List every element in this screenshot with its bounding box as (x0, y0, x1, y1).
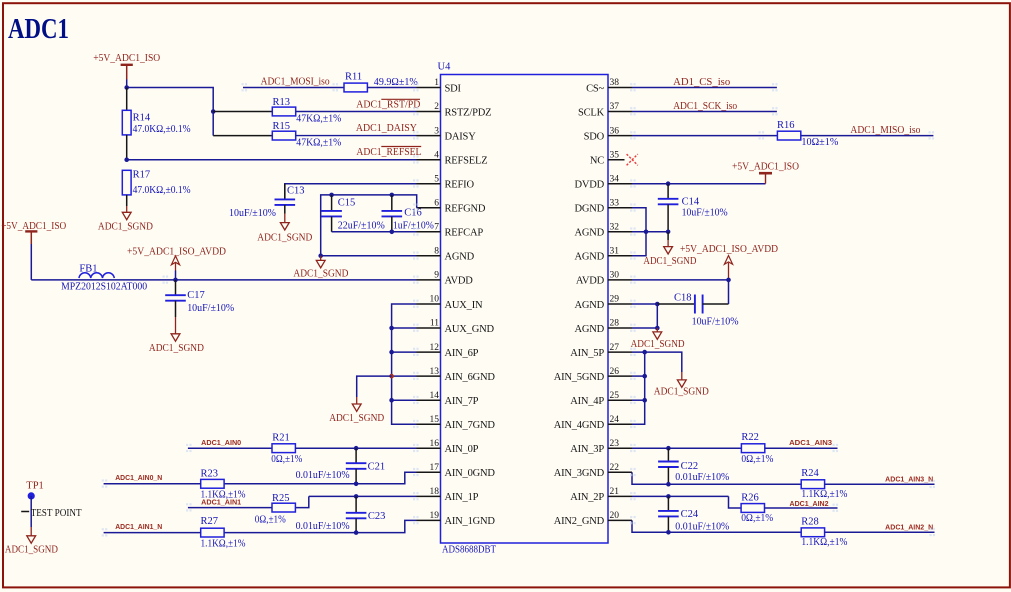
pin 35 NC (608, 159, 625, 161)
svg-text:C21: C21 (368, 461, 386, 472)
svg-text:R27: R27 (201, 516, 219, 527)
svg-text:26: 26 (610, 367, 620, 377)
svg-text:22uF/±10%: 22uF/±10% (338, 221, 385, 232)
ground under C17 (175, 317, 177, 334)
svg-text:1: 1 (434, 78, 439, 88)
wire ADC1_AIN0 (188, 447, 272, 449)
svg-text:R17: R17 (133, 169, 151, 180)
resistor R17 (122, 170, 131, 195)
capacitor C16 (391, 195, 393, 211)
wire ADC1_AIN0_N (104, 483, 201, 485)
svg-text:AIN_5GND: AIN_5GND (554, 372, 605, 383)
no-connect pin 35 (627, 154, 638, 165)
junction (666, 446, 671, 451)
svg-text:ADC1_MISO_iso: ADC1_MISO_iso (850, 125, 920, 136)
svg-text:+5V_ADC1_ISO: +5V_ADC1_ISO (1, 221, 66, 232)
svg-text:ADC1_AIN3_N: ADC1_AIN3_N (885, 477, 933, 484)
svg-text:AIN_1P: AIN_1P (445, 492, 479, 503)
svg-text:AGND: AGND (574, 300, 604, 311)
pin 5 REFIO (417, 183, 441, 185)
resistor R11 (344, 83, 367, 92)
svg-text:AIN_3P: AIN_3P (570, 444, 604, 455)
svg-text:R24: R24 (801, 468, 819, 479)
wire pin21 (632, 495, 729, 497)
svg-text:ADC1_AIN2_N: ADC1_AIN2_N (885, 525, 933, 532)
wire REFCAP (332, 231, 417, 233)
pin 7 REFCAP (417, 231, 441, 233)
svg-text:ADC1_DAISY: ADC1_DAISY (356, 123, 417, 134)
svg-text:23: 23 (610, 439, 620, 449)
resistor R16 (777, 131, 800, 140)
svg-text:1uF/±10%: 1uF/±10% (393, 220, 434, 231)
svg-text:ADC1_REFSEL: ADC1_REFSEL (356, 147, 421, 158)
svg-text:0.01uF/±10%: 0.01uF/±10% (675, 472, 729, 483)
svg-text:U4: U4 (438, 62, 452, 73)
svg-text:AVDD: AVDD (445, 276, 474, 287)
pin 19 AIN_1GND (417, 519, 441, 521)
pin 14 AIN_7P (417, 399, 441, 401)
svg-text:AGND: AGND (445, 252, 475, 263)
svg-text:AIN_5P: AIN_5P (570, 348, 604, 359)
svg-text:TEST POINT: TEST POINT (31, 508, 83, 519)
junction (642, 398, 647, 403)
svg-text:33: 33 (610, 199, 620, 209)
pin 34 DVDD (608, 183, 632, 185)
svg-text:ADC1_AIN0_N: ADC1_AIN0_N (115, 475, 162, 482)
junction (666, 482, 671, 487)
resistor R15 (272, 131, 295, 140)
svg-text:AIN_0P: AIN_0P (445, 444, 479, 455)
power flag +5V_ADC1_ISO_AVDD (right) (724, 256, 732, 265)
junction (329, 193, 334, 198)
junction (211, 109, 216, 114)
wire pin28 gnd (632, 327, 657, 329)
svg-text:ADC1_RST/PD: ADC1_RST/PD (356, 100, 420, 111)
svg-text:34: 34 (610, 174, 620, 184)
svg-text:0Ω,±1%: 0Ω,±1% (255, 514, 286, 525)
wire R13 left lead (213, 111, 272, 113)
wire ADC1_AIN1 (188, 507, 272, 509)
svg-text:4: 4 (434, 150, 439, 160)
svg-text:30: 30 (610, 271, 620, 281)
svg-text:AIN_6GND: AIN_6GND (445, 372, 496, 383)
wire AGND pin8 (321, 255, 417, 257)
capacitor C23 (355, 496, 357, 512)
svg-text:6: 6 (434, 199, 439, 209)
junction (389, 350, 394, 355)
wire bus stub (392, 375, 417, 377)
junction (124, 157, 129, 162)
wire ADC1_MISO_iso (801, 135, 933, 137)
wire pin13 ground branch (357, 376, 392, 397)
svg-text:ADC1: ADC1 (8, 14, 69, 45)
power +5V_ADC1_ISO (right) (759, 172, 772, 175)
pin 22 AIN_3GND (608, 471, 632, 473)
svg-text:1.1KΩ,±1%: 1.1KΩ,±1% (801, 537, 847, 548)
wire AUX bus (392, 304, 417, 424)
svg-text:1.1KΩ,±1%: 1.1KΩ,±1% (801, 489, 847, 500)
pin 26 AIN_5GND (608, 375, 632, 377)
junction (390, 193, 395, 198)
wire bus stub (392, 327, 417, 329)
wire DGND bus (632, 208, 646, 256)
capacitor C17 (175, 280, 177, 295)
resistor R24 (801, 480, 824, 489)
svg-text:C14: C14 (682, 196, 700, 207)
capacitor C13 (284, 184, 286, 200)
svg-text:R23: R23 (201, 468, 219, 479)
wire ADC1_MOSI_iso (243, 87, 345, 89)
ground pin8 net (320, 256, 322, 261)
junction (354, 494, 359, 499)
svg-text:ADC1_AIN1: ADC1_AIN1 (201, 500, 241, 507)
wire ADC1_AIN2 (765, 507, 838, 509)
svg-text:1.1KΩ,±1%: 1.1KΩ,±1% (201, 539, 246, 550)
power flag +5V_ADC1_ISO_AVDD (left) (171, 256, 179, 265)
pin 21 AIN_2P (608, 495, 632, 497)
capacitor C14 (667, 184, 669, 199)
svg-text:C22: C22 (681, 461, 699, 472)
svg-text:CS~: CS~ (586, 83, 604, 94)
wire R21 to pin16 (295, 447, 416, 449)
svg-text:AIN2_GND: AIN2_GND (554, 516, 605, 527)
junction (666, 494, 671, 499)
wire DVDD (632, 183, 766, 185)
svg-text:C16: C16 (404, 208, 422, 219)
svg-text:15: 15 (430, 415, 440, 425)
pin 9 AVDD (417, 279, 441, 281)
wire R15 left lead (213, 135, 272, 137)
svg-text:FB1: FB1 (79, 264, 97, 275)
wire pin18 (309, 495, 417, 497)
svg-text:ADC1_SGND: ADC1_SGND (149, 343, 204, 354)
ferrite bead FB1 (79, 273, 114, 278)
wire pin17 jog (224, 472, 416, 484)
junction (354, 530, 359, 535)
svg-text:0Ω,±1%: 0Ω,±1% (741, 513, 773, 524)
svg-text:12: 12 (430, 343, 440, 353)
resistor R14 (126, 88, 128, 111)
junction (642, 374, 647, 379)
wire bus stub (632, 399, 645, 401)
pin 38 CS~ (608, 87, 632, 89)
svg-text:31: 31 (610, 247, 620, 257)
svg-text:DAISY: DAISY (445, 131, 477, 142)
svg-text:0.01uF/±10%: 0.01uF/±10% (296, 521, 350, 532)
svg-text:ADC1_AIN1_N: ADC1_AIN1_N (115, 524, 162, 531)
svg-text:AGND: AGND (574, 324, 604, 335)
svg-text:37: 37 (610, 102, 620, 112)
svg-text:ADC1_SGND: ADC1_SGND (98, 222, 153, 233)
pin 25 AIN_4P (608, 399, 632, 401)
pin 17 AIN_0GND (417, 471, 441, 473)
svg-text:C15: C15 (338, 198, 356, 209)
svg-text:35: 35 (610, 150, 620, 160)
pin 12 AIN_6P (417, 351, 441, 353)
svg-text:25: 25 (610, 391, 620, 401)
svg-text:R28: R28 (801, 516, 819, 527)
svg-text:ADC1_SGND: ADC1_SGND (654, 387, 709, 398)
wire ADC1_AIN3 (765, 447, 838, 449)
svg-text:R14: R14 (133, 112, 151, 123)
wire AVDD pin30 (632, 279, 729, 281)
ground pin28 (656, 328, 658, 332)
ground TP1 (30, 527, 32, 536)
svg-text:0Ω,±1%: 0Ω,±1% (271, 454, 302, 465)
pin 37 SCLK (608, 111, 632, 113)
svg-text:ADC1_SGND: ADC1_SGND (5, 544, 58, 555)
junction (390, 230, 395, 235)
wire pin27 gnd branch (645, 352, 682, 372)
svg-text:13: 13 (430, 367, 440, 377)
pin 8 AGND (417, 255, 441, 257)
pin 28 AGND (608, 327, 632, 329)
capacitor C18 (657, 303, 695, 305)
svg-text:SDI: SDI (445, 83, 462, 94)
pin 29 AGND (608, 303, 632, 305)
svg-text:10uF/±10%: 10uF/±10% (229, 208, 276, 219)
wire bus stub (632, 375, 645, 377)
svg-text:SDO: SDO (584, 131, 605, 142)
svg-text:ADC1_SGND: ADC1_SGND (293, 269, 348, 280)
pin 36 SDO (608, 135, 632, 137)
resistor R22 (741, 444, 764, 453)
ground pin27 net (681, 372, 683, 380)
svg-text:DVDD: DVDD (574, 180, 604, 191)
pin 18 AIN_1P (417, 495, 441, 497)
svg-text:C23: C23 (368, 511, 386, 522)
resistor R13 (272, 107, 295, 116)
svg-text:AUX_IN: AUX_IN (445, 300, 483, 311)
svg-text:29: 29 (610, 295, 620, 305)
wire pin19 jog (224, 520, 416, 532)
pin 32 AGND (608, 231, 632, 233)
pin 27 AIN_5P (608, 351, 632, 353)
power +5V_ADC1_ISO (left edge) (25, 230, 37, 232)
svg-text:RSTZ/PDZ: RSTZ/PDZ (445, 107, 492, 118)
svg-text:18: 18 (430, 487, 440, 497)
svg-text:ADS8688DBT: ADS8688DBT (442, 545, 496, 556)
wire +5V to R13/R15 (127, 88, 214, 136)
svg-text:AIN_4P: AIN_4P (570, 396, 604, 407)
junction (655, 302, 660, 307)
svg-text:ADC1_SGND: ADC1_SGND (631, 339, 685, 350)
wire pin20 jog (632, 520, 801, 532)
junction (644, 230, 649, 235)
resistor R21 (272, 444, 295, 453)
svg-text:ADC1_SGND: ADC1_SGND (329, 413, 384, 424)
wire ADC1_AIN2_N (825, 531, 935, 533)
pin 33 DGND (608, 207, 632, 209)
pin 2 RSTZ/PDZ (417, 111, 441, 113)
svg-text:27: 27 (610, 343, 620, 353)
capacitor C15 (331, 195, 333, 211)
junction (173, 278, 178, 283)
wire ADC1_SCK_iso (632, 111, 777, 113)
svg-text:R21: R21 (272, 433, 290, 444)
wire pin18 jog (296, 496, 309, 507)
svg-text:24: 24 (610, 415, 620, 425)
svg-text:NC: NC (590, 156, 604, 167)
pin 31 AGND (608, 255, 632, 257)
pin 3 DAISY (417, 135, 441, 137)
svg-text:REFCAP: REFCAP (445, 228, 484, 239)
svg-text:R26: R26 (741, 493, 759, 504)
svg-text:32: 32 (610, 223, 620, 233)
endpoint marks (decorative) (102, 83, 935, 536)
svg-text:0Ω,±1%: 0Ω,±1% (741, 454, 773, 465)
svg-text:47KΩ,±1%: 47KΩ,±1% (296, 113, 341, 124)
svg-text:ADC1_SCK_iso: ADC1_SCK_iso (673, 101, 737, 112)
svg-text:C24: C24 (681, 509, 699, 520)
svg-text:0.01uF/±10%: 0.01uF/±10% (675, 521, 729, 532)
power +5V_ADC1_ISO (top) (121, 64, 133, 66)
resistor R25 (272, 503, 295, 512)
svg-text:7: 7 (434, 223, 439, 233)
wire pin23 (632, 447, 742, 449)
svg-text:REFSELZ: REFSELZ (445, 156, 488, 167)
svg-text:10Ω±1%: 10Ω±1% (801, 137, 838, 148)
junction (389, 326, 394, 331)
wire ADC1_AIN1_N (104, 532, 201, 534)
wire bus stub (392, 399, 417, 401)
pin 30 AVDD (608, 279, 632, 281)
svg-text:C17: C17 (187, 290, 205, 301)
svg-text:REFIO: REFIO (445, 180, 475, 191)
pin 4 REFSELZ (417, 159, 441, 161)
svg-text:19: 19 (430, 511, 440, 521)
svg-text:47KΩ,±1%: 47KΩ,±1% (296, 137, 341, 148)
wire AIN bus (632, 352, 645, 424)
pin 6 REFGND (417, 207, 441, 209)
svg-text:AIN_4GND: AIN_4GND (554, 420, 605, 431)
wire AGND pin29 to C18 (632, 303, 657, 305)
svg-text:R15: R15 (273, 121, 291, 132)
pin 24 AIN_4GND (608, 423, 632, 425)
svg-text:REFGND: REFGND (445, 204, 486, 215)
svg-text:3: 3 (434, 126, 439, 136)
svg-text:ADC1_AIN0: ADC1_AIN0 (201, 440, 241, 447)
wire SDO to R16 (632, 135, 777, 137)
svg-text:+5V_ADC1_ISO_AVDD: +5V_ADC1_ISO_AVDD (680, 244, 778, 255)
wire AD1_CS_iso (632, 87, 777, 89)
svg-text:10uF/±10%: 10uF/±10% (692, 316, 739, 327)
svg-text:C18: C18 (674, 292, 692, 303)
svg-text:AUX_GND: AUX_GND (445, 324, 495, 335)
svg-text:28: 28 (610, 319, 620, 329)
svg-text:47.0KΩ,±0.1%: 47.0KΩ,±0.1% (133, 124, 191, 135)
pin 15 AIN_7GND (417, 423, 441, 425)
svg-text:+5V_ADC1_ISO: +5V_ADC1_ISO (732, 161, 799, 172)
svg-text:22: 22 (610, 463, 620, 473)
capacitor C24 (667, 496, 669, 511)
wire ADC1_AIN3_N (825, 483, 935, 485)
svg-text:16: 16 (430, 439, 440, 449)
wire REFGND top (321, 195, 417, 256)
wire AGND pin32 (632, 231, 668, 233)
pin 10 AUX_IN (417, 303, 441, 305)
junction (666, 230, 671, 235)
capacitor C22 (667, 448, 669, 461)
svg-text:AIN_2P: AIN_2P (570, 492, 604, 503)
svg-text:AIN_0GND: AIN_0GND (445, 468, 496, 479)
svg-text:2: 2 (434, 102, 439, 112)
svg-text:AD1_CS_iso: AD1_CS_iso (673, 77, 730, 88)
ground under C13 (284, 214, 286, 223)
resistor R26 (741, 504, 764, 513)
wire C18 up (728, 280, 730, 304)
svg-text:AIN_7P: AIN_7P (445, 396, 479, 407)
svg-text:SCLK: SCLK (578, 107, 605, 118)
svg-text:R22: R22 (741, 432, 759, 443)
svg-text:R13: R13 (273, 97, 291, 108)
ground pin13 net (356, 397, 358, 404)
svg-text:AIN_1GND: AIN_1GND (445, 516, 496, 527)
wire bus stub (392, 351, 417, 353)
test point TP1 (28, 492, 35, 499)
junction (642, 350, 647, 355)
svg-text:+5V_ADC1_ISO: +5V_ADC1_ISO (93, 53, 160, 64)
junction (666, 530, 671, 535)
svg-text:21: 21 (610, 487, 620, 497)
svg-text:17: 17 (430, 463, 440, 473)
wire AVDD rail (31, 279, 416, 281)
junction (318, 254, 323, 259)
resistor R23 (201, 479, 224, 488)
resistor R27 (201, 528, 224, 537)
svg-text:36: 36 (610, 126, 620, 136)
svg-text:0.01uF/±10%: 0.01uF/±10% (296, 470, 350, 481)
svg-text:8: 8 (434, 247, 439, 257)
svg-text:ADC1_AIN3: ADC1_AIN3 (789, 440, 832, 447)
svg-text:5: 5 (434, 174, 439, 184)
svg-text:AGND: AGND (574, 228, 604, 239)
svg-text:38: 38 (610, 78, 620, 88)
svg-text:10uF/±10%: 10uF/±10% (682, 207, 728, 218)
svg-text:MPZ2012S102AT000: MPZ2012S102AT000 (61, 281, 147, 292)
svg-text:AVDD: AVDD (576, 276, 605, 287)
pin 11 AUX_GND (417, 327, 441, 329)
svg-text:11: 11 (430, 319, 439, 329)
junction (124, 85, 129, 90)
ground under C14 (667, 232, 669, 240)
resistor R28 (801, 528, 824, 537)
svg-text:49.9Ω±1%: 49.9Ω±1% (374, 77, 418, 88)
svg-text:R25: R25 (272, 493, 290, 504)
svg-text:ADC1_MOSI_iso: ADC1_MOSI_iso (261, 77, 330, 88)
svg-text:AGND: AGND (574, 252, 604, 263)
wire pin21 jog (729, 496, 742, 508)
junction (389, 398, 394, 403)
IC U4 ADS8688DBT body (441, 75, 609, 544)
wire REFIO (285, 184, 417, 200)
svg-text:14: 14 (430, 391, 440, 401)
svg-text:20: 20 (610, 511, 620, 521)
capacitor C21 (355, 448, 357, 463)
svg-text:ADC1_AIN2: ADC1_AIN2 (790, 501, 829, 508)
svg-text:+5V_ADC1_ISO_AVDD: +5V_ADC1_ISO_AVDD (127, 246, 226, 257)
junction (354, 482, 359, 487)
svg-text:C13: C13 (287, 185, 305, 196)
pin 23 AIN_3P (608, 447, 632, 449)
svg-text:AIN_6P: AIN_6P (445, 348, 479, 359)
svg-text:10: 10 (430, 295, 440, 305)
svg-text:9: 9 (434, 271, 439, 281)
junction (655, 326, 660, 331)
pin 1 SDI (417, 87, 441, 89)
svg-text:ADC1_SGND: ADC1_SGND (643, 256, 696, 267)
wire pin22 jog (632, 472, 801, 484)
